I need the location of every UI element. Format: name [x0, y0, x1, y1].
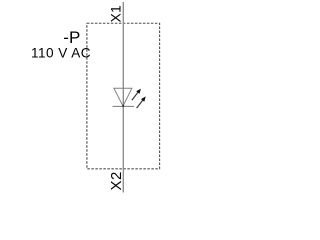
svg-text:-P: -P: [63, 28, 80, 47]
LED light-emission arrow 2 head: [141, 96, 146, 101]
LED D1: cathode bar: [113, 105, 134, 107]
LED D1: anode triangle: [114, 88, 132, 106]
wire: X2 lead from LED cathode to terminal: [122, 106, 124, 192]
svg-text:X1: X1: [108, 5, 124, 23]
enclosure dashed outline of pilot light -P: [87, 23, 160, 169]
LED light-emission arrow 2 shaft: [137, 100, 144, 108]
svg-text:110 V AC: 110 V AC: [31, 46, 91, 61]
LED D1: junction dot at apex: [122, 105, 124, 107]
svg-text:X2: X2: [108, 171, 125, 190]
LED light-emission arrow 1 head: [136, 89, 141, 94]
wire: X1 lead from terminal to LED anode: [122, 2, 124, 106]
LED light-emission arrow 1 shaft: [132, 92, 139, 100]
